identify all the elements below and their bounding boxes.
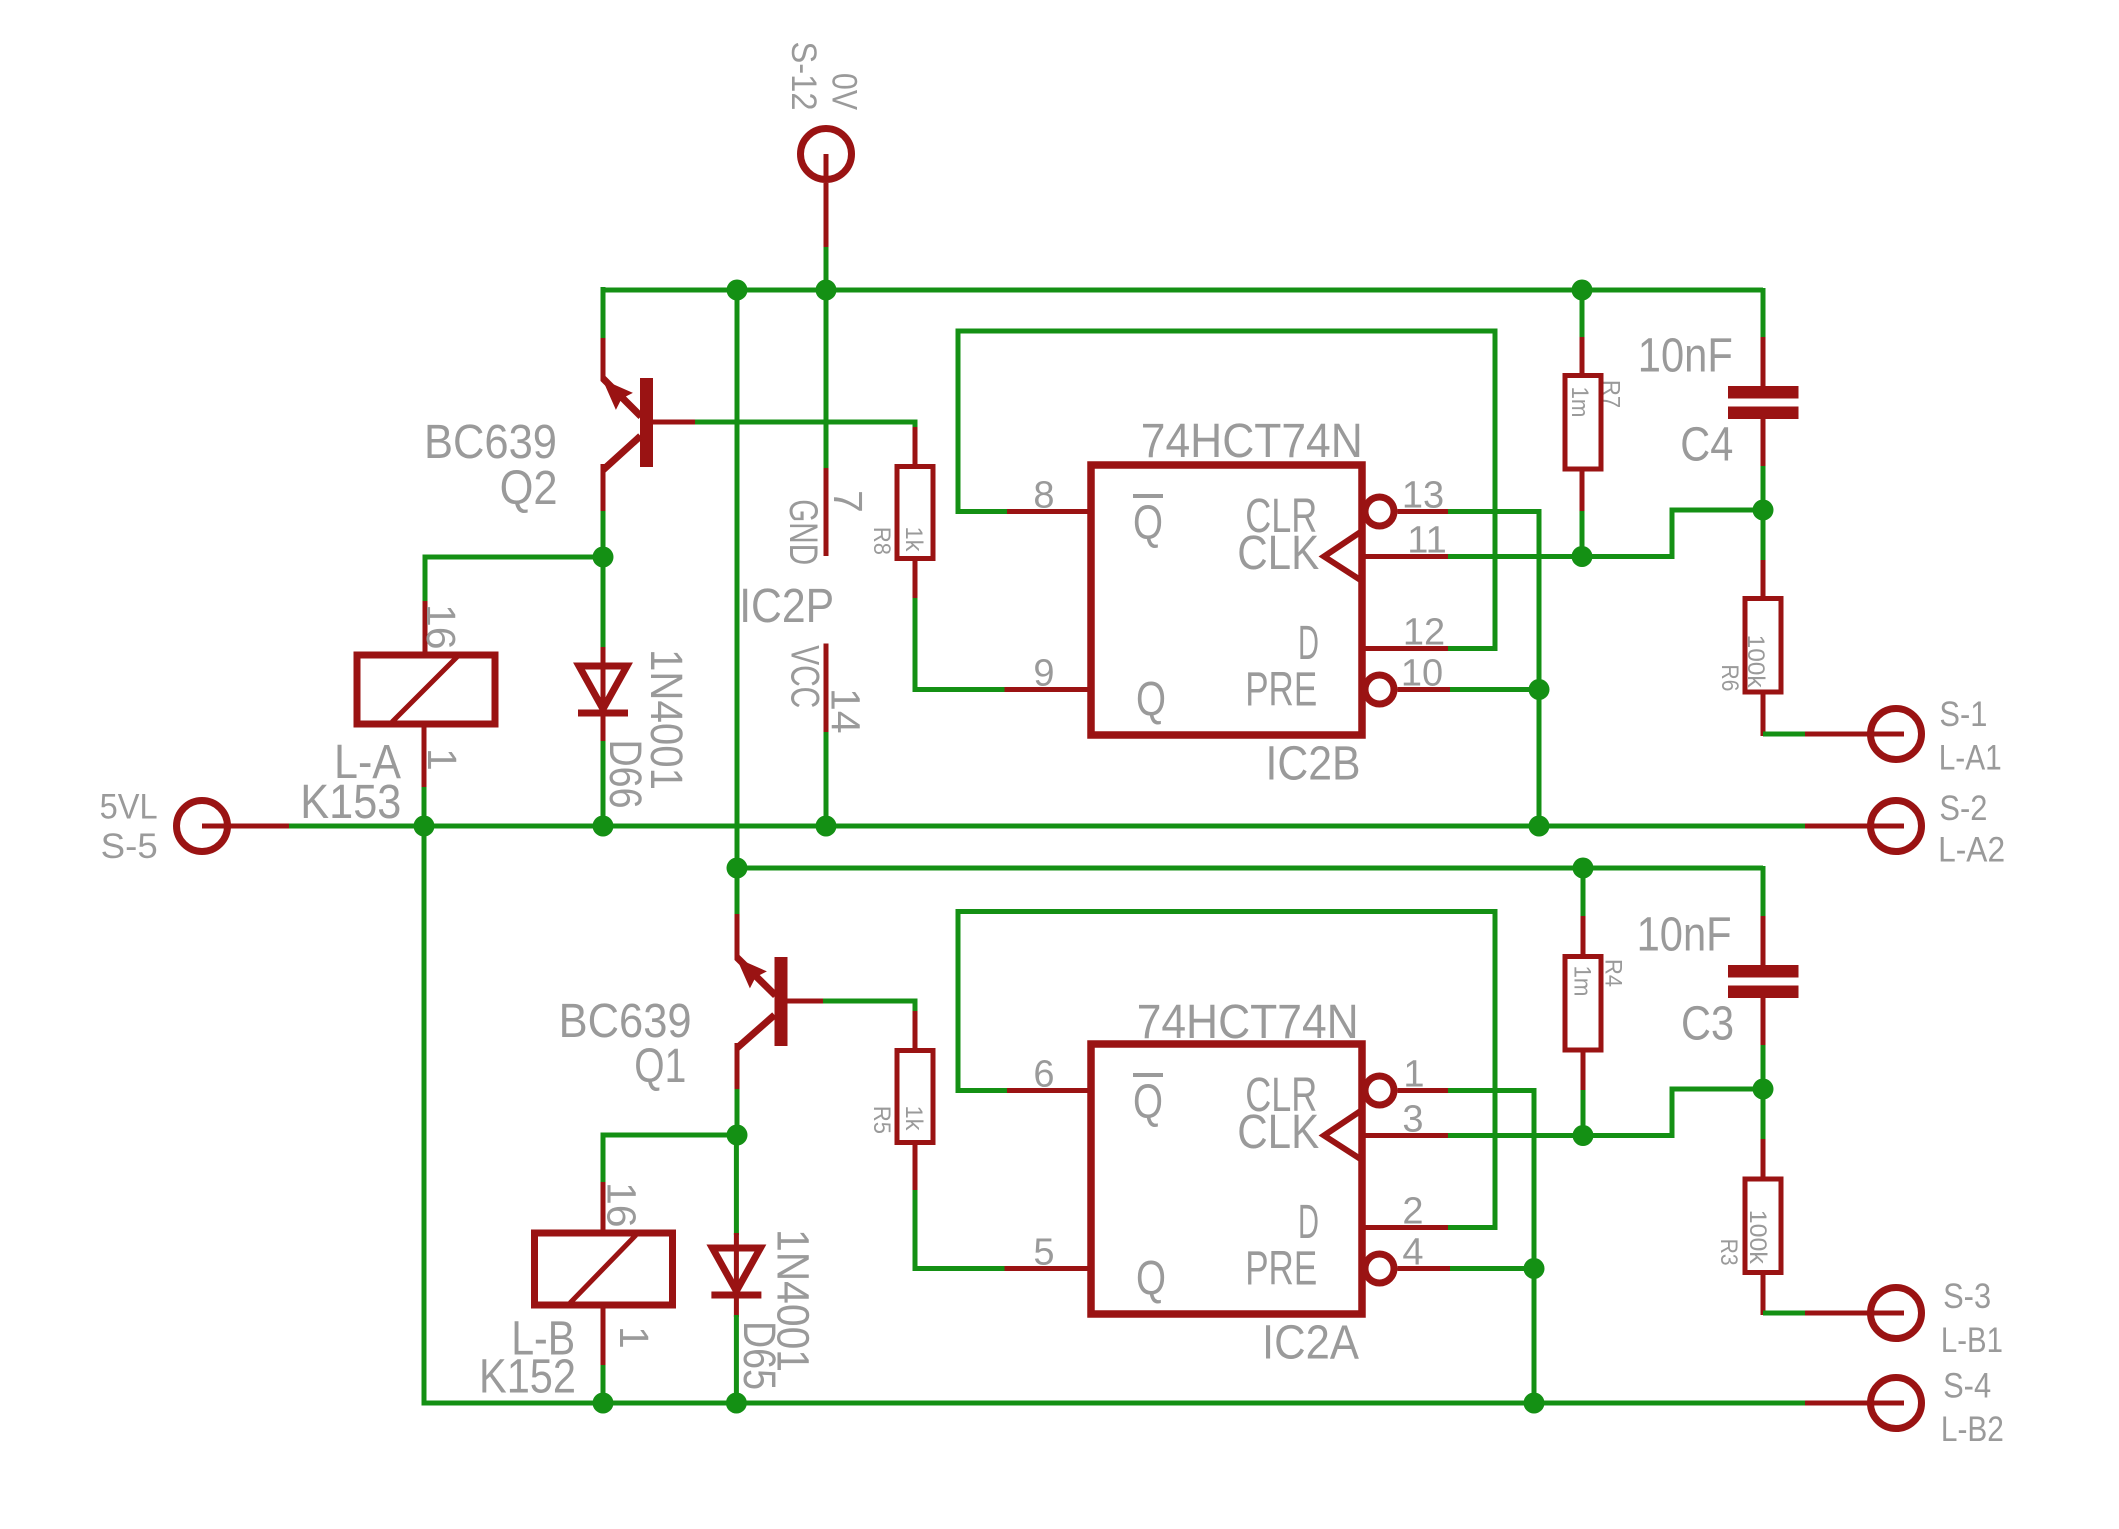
- svg-text:13: 13: [1402, 475, 1444, 517]
- svg-text:S-5: S-5: [101, 827, 158, 866]
- net D2 loop link: [1448, 1225, 1495, 1230]
- junction rail D66: [593, 816, 614, 837]
- wire emitter node to relay K152: [603, 1135, 737, 1184]
- svg-text:PRE: PRE: [1245, 1243, 1317, 1296]
- wire emitter node to relay K153: [425, 557, 603, 603]
- svg-text:S-1: S-1: [1939, 695, 1987, 734]
- junction rail VCC: [816, 816, 837, 837]
- junction bottom rail D65: [726, 1393, 747, 1414]
- svg-text:100k: 100k: [1744, 1210, 1771, 1265]
- svg-text:5: 5: [1033, 1232, 1054, 1274]
- svg-text:R5: R5: [868, 1106, 895, 1134]
- pin 1 CLR IC2A bubble: [1365, 1076, 1394, 1105]
- svg-text:L-B2: L-B2: [1941, 1410, 2004, 1449]
- svg-text:2: 2: [1402, 1191, 1423, 1233]
- pin 9 IC2B: [1005, 687, 1092, 692]
- svg-text:7: 7: [825, 490, 871, 513]
- wire Q1 base red: [788, 999, 824, 1004]
- svg-text:11: 11: [1407, 520, 1446, 562]
- wire R6 to pad S-1: [1763, 732, 1807, 737]
- svg-text:VCC: VCC: [783, 645, 827, 708]
- pad S-1 L-A1: [1871, 709, 1922, 760]
- svg-text:R7: R7: [1598, 380, 1625, 408]
- wire D65 to bottom rail: [734, 1315, 739, 1405]
- wire vertical x737 top rail to Q1: [735, 290, 740, 916]
- junction C4-R6-CLK node: [1753, 500, 1774, 521]
- svg-text:D65: D65: [734, 1321, 785, 1390]
- net bottom rail S-4: [424, 824, 1807, 1403]
- wire top-rail left corner down to Q2 collector: [601, 287, 606, 338]
- net CLK3 to C3/R3 node: [1448, 1089, 1765, 1136]
- junction top rail 0V x826: [816, 280, 837, 301]
- wire pin8 net: [958, 509, 1007, 514]
- transistor Q1 BC639: [775, 957, 788, 1046]
- resistor R5 1k: [913, 1011, 918, 1052]
- svg-text:1: 1: [611, 1326, 657, 1349]
- svg-text:5VL: 5VL: [100, 787, 158, 826]
- svg-text:9: 9: [1033, 653, 1054, 695]
- pin 8 IC2B: [1005, 509, 1092, 514]
- junction bottom rail K152: [593, 1393, 614, 1414]
- junction top rail R7 x1582: [1572, 280, 1593, 301]
- svg-text:R6: R6: [1716, 664, 1743, 691]
- svg-text:CLK: CLK: [1237, 1106, 1319, 1159]
- wire R3 to pad S-3: [1763, 1311, 1807, 1316]
- svg-text:74HCT74N: 74HCT74N: [1141, 415, 1363, 468]
- svg-text:R3: R3: [1715, 1239, 1742, 1266]
- svg-text:IC2P: IC2P: [739, 580, 834, 633]
- wire Q2 emitter diagonal: [603, 436, 641, 470]
- svg-text:1k: 1k: [900, 527, 927, 553]
- svg-text:K152: K152: [479, 1351, 576, 1404]
- wire R5 to pin 5: [915, 1190, 1006, 1269]
- svg-text:Q: Q: [1133, 1076, 1163, 1129]
- wire 0V stub green: [824, 247, 829, 292]
- wire Q2 collector red: [601, 338, 606, 381]
- pad S-2 L-A2: [1871, 801, 1922, 852]
- pin 13 CLR IC2B bubble: [1365, 497, 1394, 526]
- pin 4 PRE IC2A bubble: [1365, 1254, 1394, 1283]
- arrow Q2 emitter: [603, 380, 633, 410]
- ic IC2B 74HCT74N box: [1091, 465, 1362, 735]
- pad S-4 L-B2: [1871, 1378, 1922, 1429]
- svg-text:IC2B: IC2B: [1266, 738, 1361, 791]
- svg-text:16: 16: [599, 1182, 645, 1228]
- net lower rail: [737, 866, 1763, 871]
- resistor R7 1m: [1580, 288, 1585, 339]
- junction Q1 emitter node: [735, 1089, 740, 1137]
- relay K152 L-B coil: [535, 1233, 673, 1305]
- junction rail relay pin1: [414, 816, 435, 837]
- resistor R3 100k: [1761, 1087, 1766, 1141]
- svg-text:1m: 1m: [1568, 966, 1595, 997]
- svg-text:S-3: S-3: [1943, 1277, 1991, 1316]
- net CLR1 to PRE4 to bottom rail: [1448, 1091, 1534, 1404]
- wire K152 pin1 to bottom rail: [601, 1365, 606, 1405]
- supply pad 5VL S-5: [177, 801, 228, 852]
- wire rail to pad S-2: [1805, 824, 1904, 829]
- wire R8 to pin 9: [915, 598, 1006, 690]
- net D12 loop link: [1448, 646, 1495, 651]
- wire 5VL pad stub: [202, 824, 291, 829]
- supply pad 0V S-12: [801, 129, 852, 180]
- svg-text:L-B1: L-B1: [1941, 1321, 2003, 1360]
- svg-text:1: 1: [419, 748, 465, 771]
- relay K153 L-A coil: [357, 655, 495, 724]
- svg-text:D: D: [1298, 617, 1319, 670]
- pin 12 D IC2B: [1362, 646, 1450, 651]
- svg-text:CLK: CLK: [1237, 527, 1319, 580]
- resistor R6 100k: [1761, 508, 1766, 562]
- node 0V top rail wire: [603, 288, 1763, 293]
- net CLK11 to C4/R6 node: [1448, 510, 1765, 557]
- junction Q2 emitter node: [601, 511, 606, 559]
- transistor Q2 BC639: [640, 378, 653, 467]
- svg-text:Q1: Q1: [634, 1040, 686, 1093]
- svg-text:0V: 0V: [825, 73, 864, 111]
- wire bottom rail to pad S-4: [1805, 1401, 1904, 1406]
- svg-text:Q: Q: [1136, 1252, 1166, 1305]
- feedback loop IC2B Qbar to D: [958, 331, 1495, 651]
- relay K153 pin 16 stub: [423, 601, 428, 657]
- wire 0V pad red stub: [824, 183, 829, 247]
- diode D66 1N4001: [601, 555, 606, 649]
- wire D66 to rail: [601, 741, 606, 828]
- svg-text:R4: R4: [1600, 959, 1627, 987]
- ic IC2A 74HCT74N box: [1091, 1044, 1362, 1314]
- svg-text:Q: Q: [1133, 497, 1163, 550]
- junction lower rail x737: [727, 858, 748, 879]
- arrow Q1 emitter: [737, 958, 767, 988]
- pin 10 PRE IC2B bubble: [1365, 675, 1394, 704]
- svg-text:10nF: 10nF: [1638, 330, 1733, 383]
- svg-text:GND: GND: [781, 499, 825, 565]
- pin 11 CLK IC2B: [1362, 554, 1450, 559]
- svg-text:R8: R8: [868, 527, 895, 555]
- svg-text:IC2A: IC2A: [1262, 1317, 1359, 1370]
- svg-text:C4: C4: [1680, 419, 1733, 472]
- relay K152 pin 1 stub: [601, 1303, 606, 1367]
- wire Q1 base to R5: [823, 1001, 915, 1013]
- resistor R4 1m: [1581, 866, 1586, 918]
- junction C3-R3-CLK node: [1753, 1079, 1774, 1100]
- svg-text:K153: K153: [300, 776, 401, 829]
- svg-text:6: 6: [1033, 1054, 1054, 1096]
- ic IC2P power pin 7 GND: [824, 288, 829, 470]
- svg-text:D66: D66: [600, 740, 651, 809]
- relay K153 pin 1 stub: [422, 722, 427, 789]
- clock wedge IC2B pin 11: [1324, 531, 1362, 581]
- svg-text:74HCT74N: 74HCT74N: [1137, 996, 1359, 1049]
- feedback loop IC2A Qbar to D: [958, 912, 1495, 1231]
- pin 5 IC2A: [1005, 1266, 1092, 1271]
- svg-text:C3: C3: [1681, 998, 1734, 1051]
- wire pin6 net: [958, 1088, 1007, 1093]
- wire Q1 collector red: [735, 914, 740, 960]
- relay K152 pin 16 stub: [601, 1182, 606, 1235]
- svg-text:10nF: 10nF: [1637, 909, 1732, 962]
- svg-text:3: 3: [1402, 1099, 1423, 1141]
- capacitor C4 10nF: [1761, 288, 1766, 339]
- svg-text:D: D: [1298, 1196, 1319, 1249]
- svg-text:1m: 1m: [1566, 387, 1593, 418]
- junction top rail x737: [727, 280, 748, 301]
- svg-text:14: 14: [822, 688, 868, 734]
- svg-text:Q: Q: [1136, 673, 1166, 726]
- pin 6 IC2A: [1005, 1088, 1092, 1093]
- junction bottom rail CLR/PRE: [1524, 1393, 1545, 1414]
- svg-text:PRE: PRE: [1245, 664, 1317, 717]
- net 5VL rail: [289, 824, 1807, 829]
- capacitor C3 10nF: [1761, 866, 1766, 918]
- pin 3 CLK IC2A: [1362, 1133, 1450, 1138]
- svg-text:100k: 100k: [1742, 635, 1769, 689]
- clock wedge IC2A pin 3: [1324, 1110, 1362, 1160]
- svg-text:8: 8: [1033, 475, 1054, 517]
- wire Q2 base red: [653, 420, 695, 425]
- svg-text:S-2: S-2: [1939, 789, 1987, 828]
- pad S-3 L-B1: [1871, 1288, 1922, 1339]
- svg-text:4: 4: [1402, 1232, 1423, 1274]
- diode D65 1N4001: [734, 1133, 739, 1235]
- svg-text:Q2: Q2: [500, 462, 558, 515]
- svg-text:16: 16: [418, 604, 464, 650]
- ic IC2P power pin 14 VCC: [824, 644, 829, 735]
- net CLR13 to PRE10 to rail: [1448, 512, 1539, 827]
- wire Q1 emitter diagonal: [737, 1015, 775, 1048]
- junction lower rail R4: [1573, 858, 1594, 879]
- resistor R8 1k: [913, 427, 918, 468]
- svg-text:12: 12: [1403, 612, 1445, 654]
- svg-text:1k: 1k: [900, 1106, 927, 1132]
- wire K153 pin1 to rail: [422, 787, 427, 828]
- svg-text:S-12: S-12: [784, 42, 823, 111]
- svg-text:S-4: S-4: [1943, 1367, 1991, 1406]
- pin 2 D IC2A: [1362, 1225, 1450, 1230]
- svg-text:L-A1: L-A1: [1939, 739, 2002, 778]
- junction rail CLR/PRE net: [1529, 816, 1550, 837]
- wire Q2 base to R8: [695, 422, 915, 429]
- svg-text:10: 10: [1401, 653, 1443, 695]
- svg-text:1: 1: [1403, 1054, 1424, 1096]
- svg-text:L-A2: L-A2: [1938, 831, 2005, 870]
